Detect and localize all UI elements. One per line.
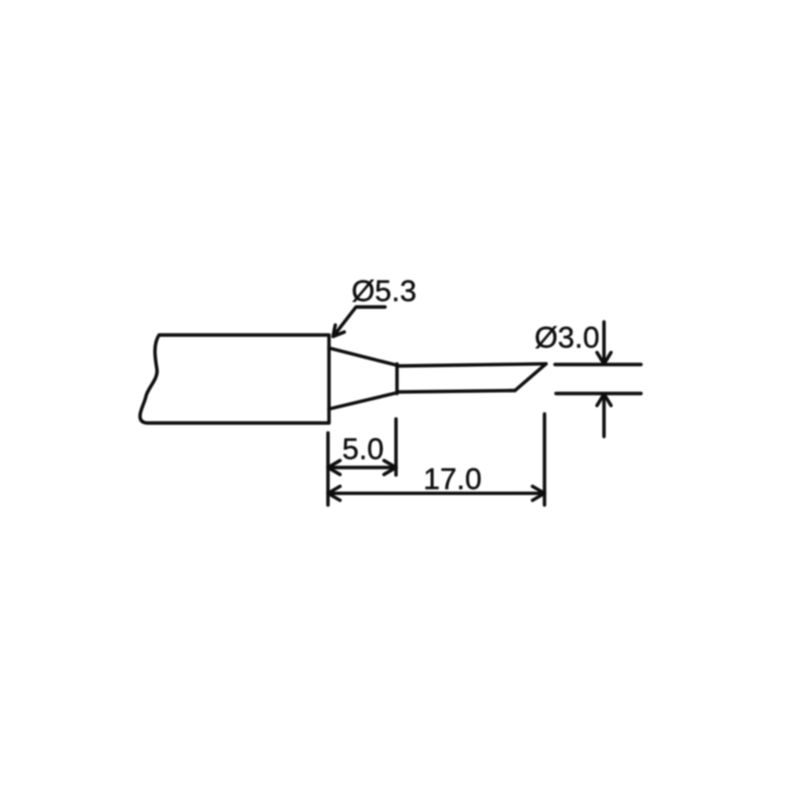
- svg-text:Ø5.3: Ø5.3: [351, 275, 416, 308]
- svg-text:17.0: 17.0: [423, 463, 481, 496]
- svg-text:Ø3.0: Ø3.0: [534, 322, 599, 355]
- svg-text:5.0: 5.0: [342, 433, 384, 466]
